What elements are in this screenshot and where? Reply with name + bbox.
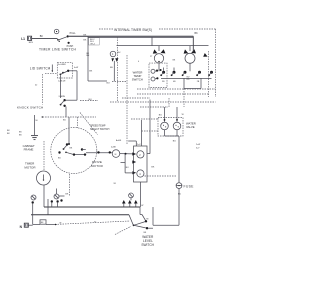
svg-text:LID SWITCH: LID SWITCH bbox=[30, 66, 51, 70]
svg-text:FUSE: FUSE bbox=[184, 185, 195, 189]
svg-text:BU: BU bbox=[89, 99, 92, 101]
svg-text:1=BLUE: 1=BLUE bbox=[58, 81, 66, 83]
svg-text:INTERNAL TIMER SW(S): INTERNAL TIMER SW(S) bbox=[114, 28, 152, 32]
svg-text:2=BRN: 2=BRN bbox=[59, 96, 66, 98]
svg-text:TIMER LINE SWITCH: TIMER LINE SWITCH bbox=[39, 48, 77, 52]
svg-text:L1: L1 bbox=[21, 37, 25, 41]
svg-text:FRAME: FRAME bbox=[24, 148, 34, 152]
svg-text:4=BK: 4=BK bbox=[111, 147, 117, 149]
svg-text:BK: BK bbox=[40, 35, 44, 38]
svg-text:2=W: 2=W bbox=[196, 144, 200, 146]
svg-text:A=BK: A=BK bbox=[116, 139, 122, 142]
svg-text:4=W: 4=W bbox=[74, 67, 78, 69]
svg-text:BU: BU bbox=[107, 82, 110, 84]
svg-text:PULL: PULL bbox=[70, 32, 77, 35]
svg-text:3=GRAY: 3=GRAY bbox=[58, 63, 66, 66]
svg-text:SWITCH: SWITCH bbox=[132, 78, 143, 82]
svg-text:W: W bbox=[59, 222, 61, 224]
svg-text:BU: BU bbox=[159, 114, 162, 116]
svg-text:BKS: BKS bbox=[29, 42, 34, 44]
svg-text:BK: BK bbox=[195, 32, 199, 35]
svg-text:KNOCK SWITCH: KNOCK SWITCH bbox=[17, 105, 43, 109]
svg-text:MOTOR: MOTOR bbox=[24, 165, 36, 169]
svg-text:MOTOR: MOTOR bbox=[91, 164, 104, 168]
svg-text:BU: BU bbox=[110, 67, 113, 69]
svg-text:BU: BU bbox=[178, 193, 181, 195]
svg-text:VALVE: VALVE bbox=[186, 125, 195, 129]
svg-text:SWITCH: SWITCH bbox=[141, 243, 154, 247]
svg-text:BU: BU bbox=[173, 140, 176, 142]
